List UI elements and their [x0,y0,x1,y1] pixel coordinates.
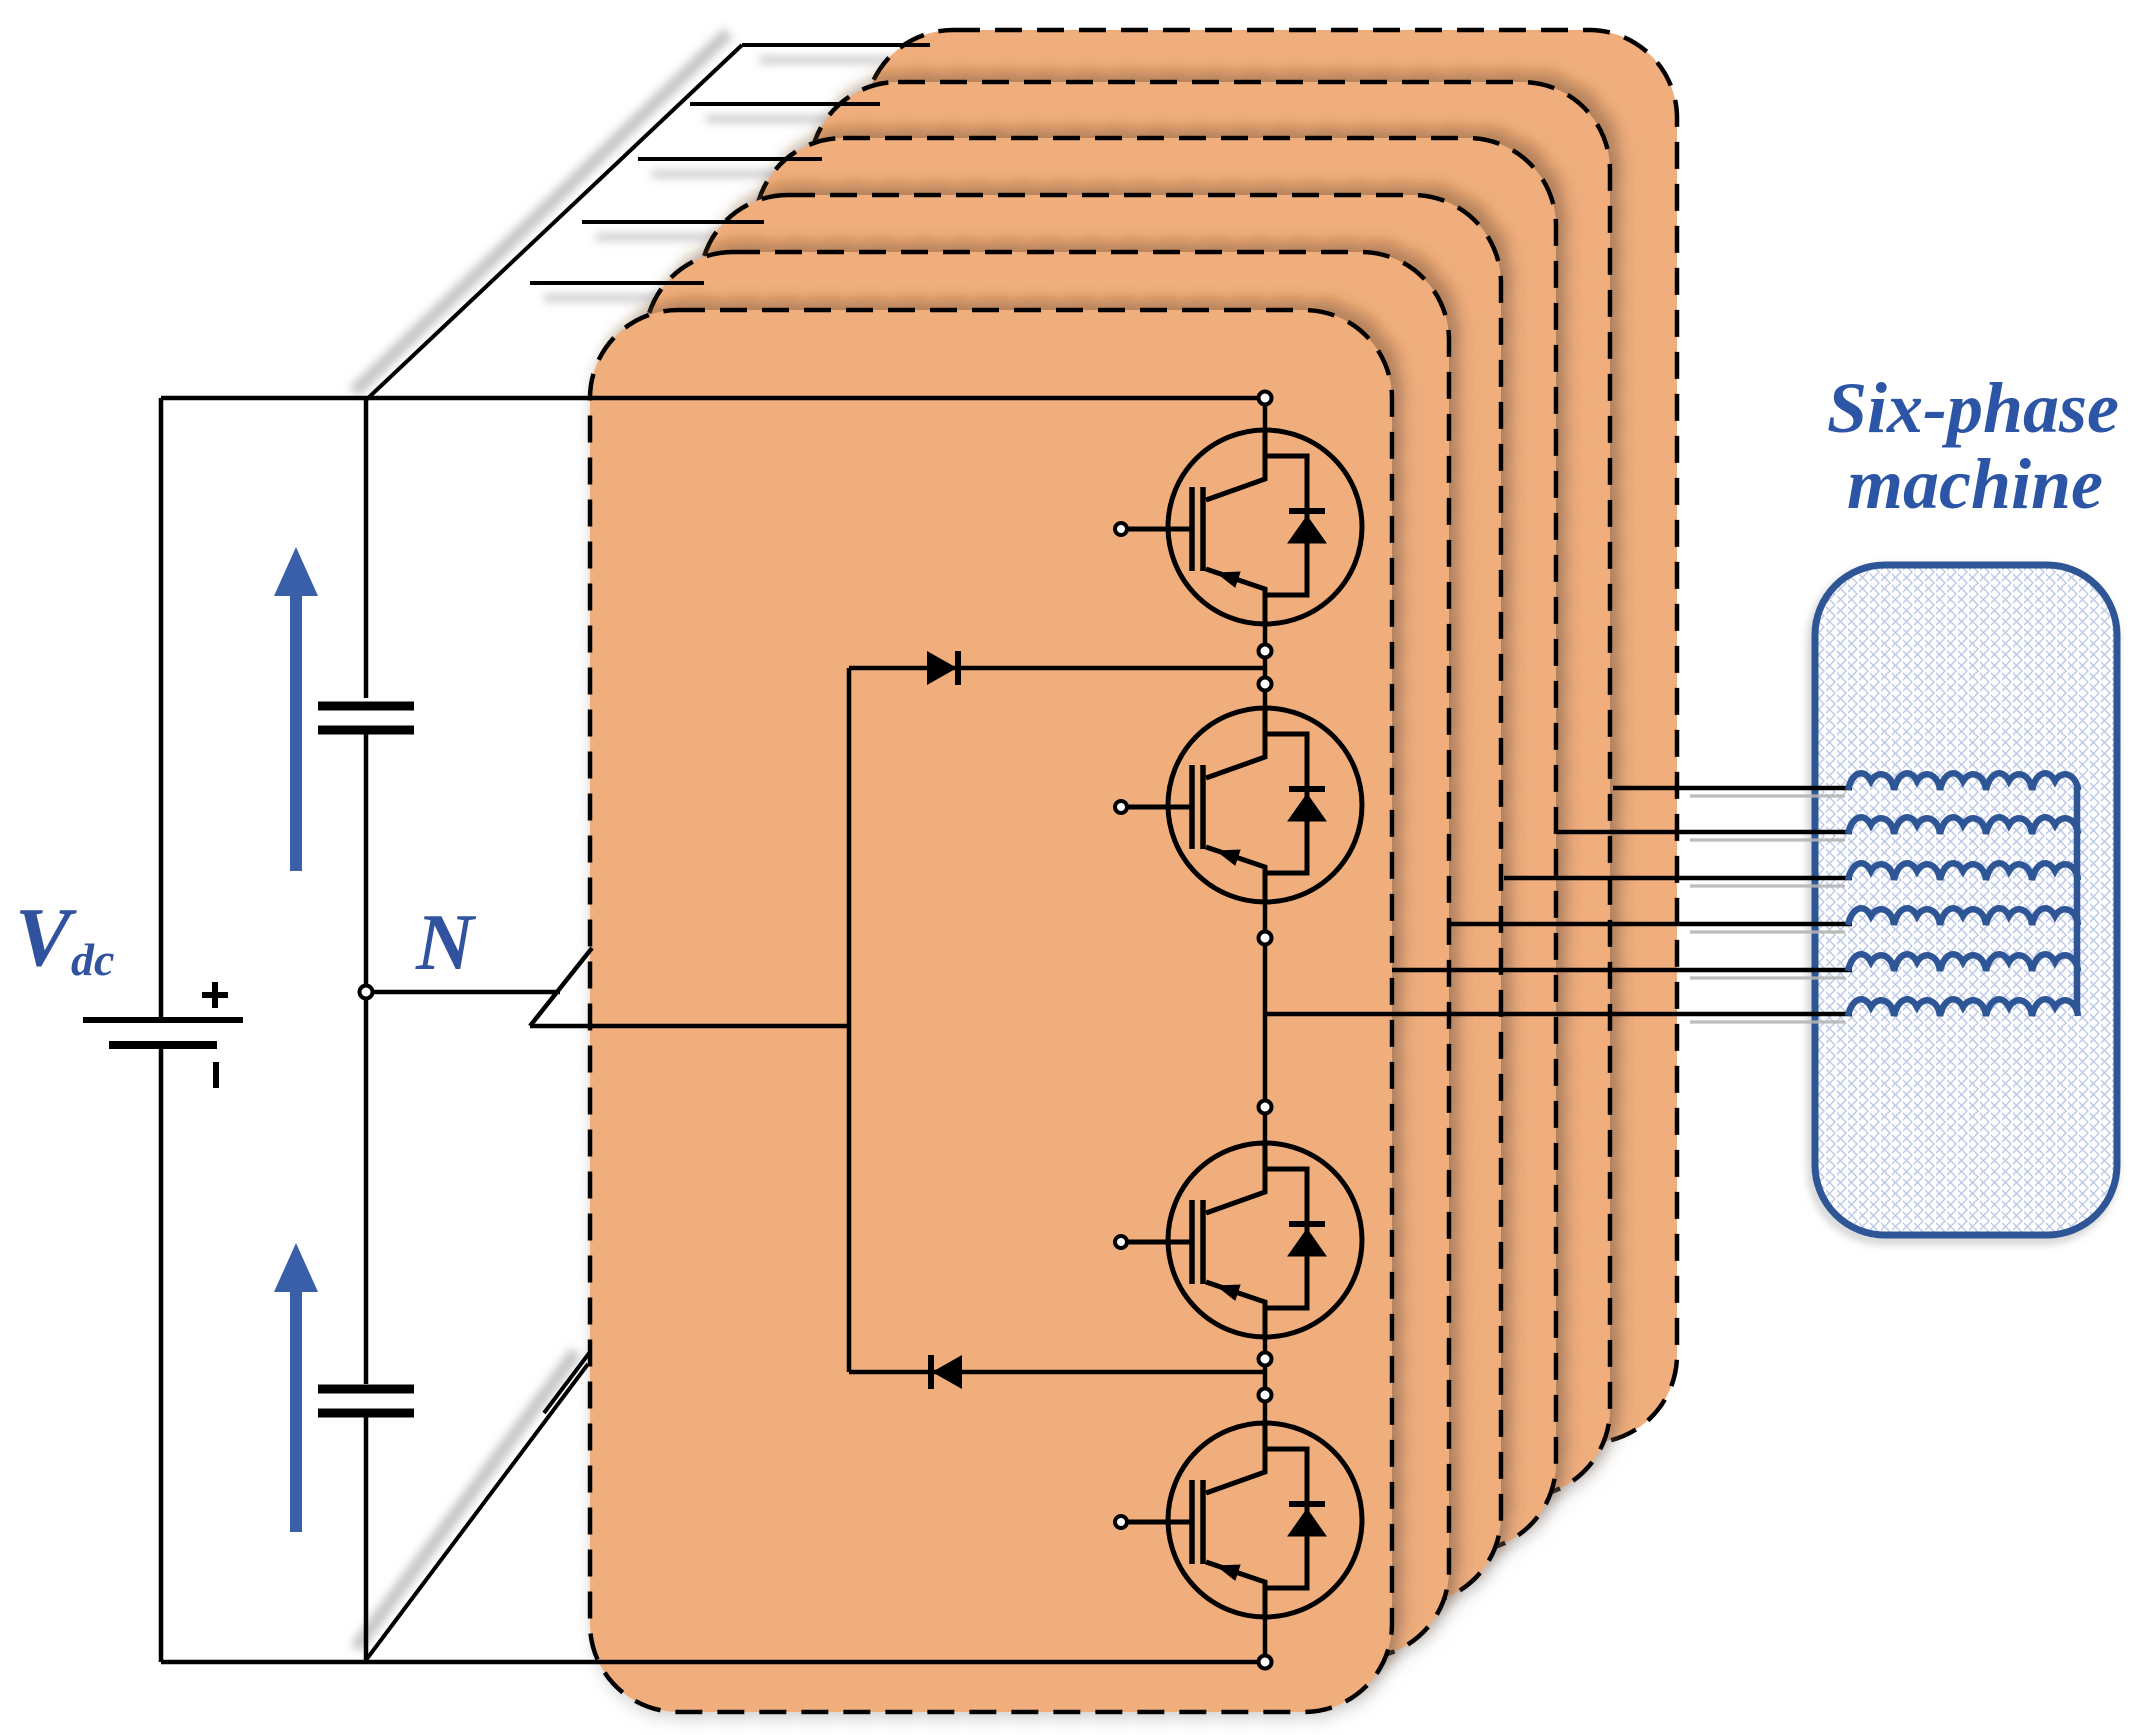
winding common link [2074,786,2081,1012]
winding phase 6 [1848,999,2078,1016]
winding phase 3 [1848,863,2078,880]
phase line 6 (front card) [1265,1012,1852,1017]
wire neutral into card [530,1024,849,1029]
svg-text:N: N [415,899,477,987]
six-phase machine body [1812,565,2117,1240]
battery B1 positive plate [83,1017,243,1023]
capacitor C2 [318,1389,414,1413]
winding phase 5 [1848,954,2078,971]
3D stack bottom wedge line [544,1352,590,1413]
battery plus sign [202,982,228,1008]
winding phase 1 [1848,773,2078,790]
terminal node T3 emitter [1259,1353,1272,1366]
terminal node T3 collector [1259,1101,1272,1114]
inverter card 2 [645,252,1449,1658]
IGBT T1 [1115,430,1362,624]
wire left DC bus upper [159,398,164,1020]
inverter card 5 [810,82,1610,1497]
phase line 5 [1392,968,1852,973]
3D stack bottom diagonal edge [366,1364,588,1660]
inverter card 1 (front) [590,310,1392,1712]
3D stack step shadows [544,60,920,298]
battery minus sign [213,1062,219,1088]
3D stack top face diagonal shadow [354,33,728,392]
capacitor leg wire upper [364,398,369,698]
inverter card 6 (back) [865,30,1677,1443]
terminal node T1 emitter [1259,645,1272,658]
svg-text:Six-phase: Six-phase [1827,368,2119,448]
3D stack step edge 4 [582,220,764,224]
3D stack top face diagonal edge [366,45,742,400]
node N [360,986,373,999]
IGBT T2 [1115,708,1362,902]
3D stack bottom diagonal shadow [356,1352,576,1648]
3D stack step edge 1 [742,43,930,47]
phase line shadows [1690,796,1845,1022]
wire top DC rail shadow [185,389,360,395]
capacitor leg wire lower [364,1417,369,1662]
capacitor C1 [318,706,414,730]
clamp branch vertical wire [847,668,852,1372]
capacitor leg wire middle [364,734,369,1384]
terminal node T2 collector [1259,678,1272,691]
current arrow lower [274,1243,318,1532]
phase line 2 [1556,830,1852,835]
wire inverter spine [1263,398,1268,430]
phase line 1 [1613,786,1852,791]
IGBT T4 [1115,1423,1362,1617]
svg-text:machine: machine [1847,444,2103,524]
phase line 4 [1449,922,1852,927]
winding phase 4 [1848,908,2078,925]
terminal node bottom [1259,1656,1272,1669]
phase line 3 [1504,876,1852,881]
wire bottom DC rail [161,1660,1265,1665]
inverter card 3 [700,195,1501,1604]
current arrow upper [274,547,318,871]
inverter card 4 [755,138,1556,1551]
3D stack step edge 3 [638,157,822,161]
clamp diode D5 [927,651,958,685]
svg-text:Vdc: Vdc [15,891,114,985]
battery B1 negative plate [109,1041,217,1049]
winding phase 2 [1848,817,2078,834]
3D stack step edge 2 [690,102,880,106]
IGBT T3 [1115,1143,1362,1337]
3D stack step edge 5 [530,281,704,285]
terminal node T4 collector [1259,1389,1272,1402]
terminal node T2 emitter [1259,932,1272,945]
wire top clamp [849,666,1265,671]
wire node N to stack [372,990,560,995]
wire top DC rail [161,396,1265,401]
neutral plane arrow [530,948,592,1026]
clamp diode D6 [931,1355,962,1389]
wire bottom clamp [849,1370,1265,1375]
terminal node top [1259,392,1272,405]
wire left DC bus lower [159,1045,164,1662]
